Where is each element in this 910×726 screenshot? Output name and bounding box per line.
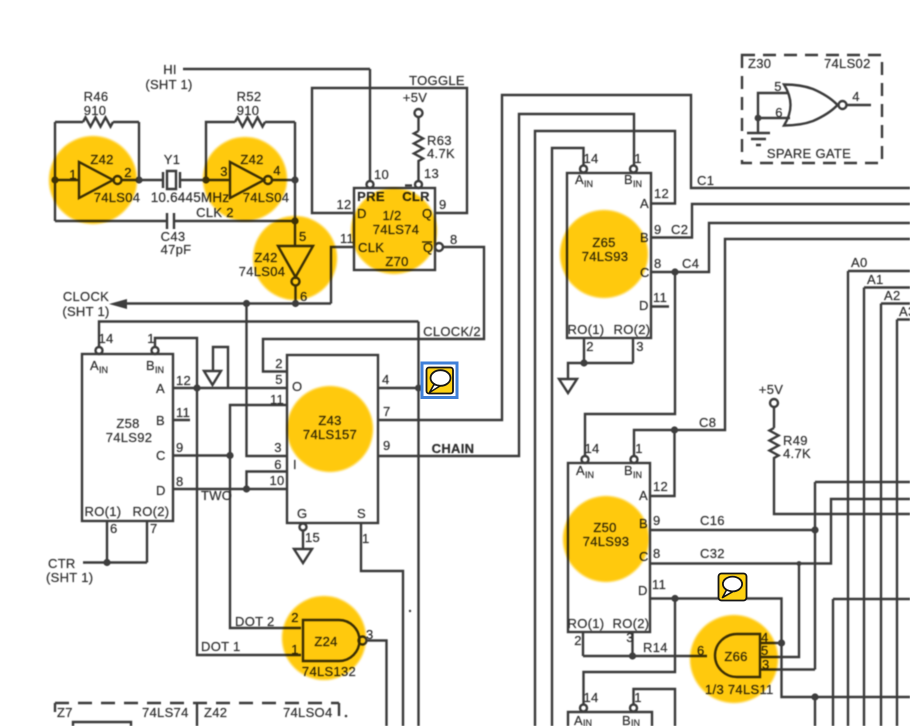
pin 1 circle bottom counter	[630, 705, 637, 712]
junction C8	[671, 426, 678, 433]
svg-text:11: 11	[653, 290, 667, 305]
svg-text:9: 9	[439, 197, 447, 212]
label A_IN Z65	[575, 172, 593, 189]
svg-text:D: D	[639, 298, 649, 313]
svg-text:C16: C16	[700, 513, 725, 528]
svg-text:14: 14	[98, 331, 113, 346]
wire TOGGLE loop Q to D	[312, 88, 467, 213]
label Z42 74LS04 inverter A	[90, 152, 140, 205]
label C43 47pF	[161, 229, 192, 257]
pin labels 2 3 Z50	[574, 630, 634, 648]
svg-text:4.7K: 4.7K	[783, 446, 811, 461]
svg-text:3: 3	[274, 440, 282, 455]
highlight circle over Z42 inverter C	[253, 216, 337, 300]
pin 14 circle Z58	[96, 347, 103, 354]
pin labels inverter B	[220, 163, 281, 179]
svg-text:13: 13	[424, 166, 439, 181]
wire Z43 pin9 CHAIN to Z65 B_IN	[378, 114, 634, 456]
wire Z58 C output	[173, 454, 230, 456]
arrow symbol open triangle	[204, 371, 221, 385]
junction osc A right	[135, 176, 142, 183]
wire staple to arrow symbol	[213, 347, 228, 388]
IC Z50 box	[568, 463, 650, 632]
highlight circle over Z50 counter	[563, 496, 649, 582]
svg-text:47pF: 47pF	[161, 242, 192, 257]
wire G to ground	[302, 531, 304, 550]
wire Z43 pin7 to C1	[378, 95, 910, 420]
IC bottom counter box partial	[568, 712, 652, 726]
label HI (SHT 1)	[145, 62, 192, 92]
label PRE CLR	[357, 189, 430, 204]
ground triangle below Z65	[559, 379, 577, 393]
NOR gate Z30	[784, 85, 838, 126]
resistor R46 with feedback loop	[55, 117, 139, 126]
svg-text:C8: C8	[699, 415, 716, 430]
wire C43 right CLK2	[174, 220, 295, 222]
label CLOCK (SHT 1)	[62, 289, 109, 319]
resistor R63	[414, 117, 423, 181]
pin labels 5 6 4 Z30	[774, 79, 860, 120]
svg-text:910: 910	[237, 103, 260, 118]
Z65 pin numbers 12 9 8 11	[653, 186, 669, 305]
inverter B output bubble	[264, 176, 272, 184]
svg-text:12: 12	[653, 479, 668, 494]
wire Z65 A output nest down	[535, 131, 675, 726]
svg-text:RO(2): RO(2)	[613, 616, 650, 631]
pin 1 circle Z50	[631, 456, 638, 463]
wire CLK pin11 of Z70	[331, 247, 354, 304]
pin 14 circle Z65	[580, 166, 587, 173]
svg-text:74LSO4: 74LSO4	[283, 705, 333, 720]
svg-text:2: 2	[574, 633, 582, 648]
pin labels 14 1 Z50	[584, 441, 642, 456]
svg-text:RO(1): RO(1)	[568, 616, 605, 631]
highlight circle over Z70 flip-flop	[351, 188, 437, 274]
pin 13 CLR circle	[415, 181, 422, 188]
svg-text:74LS02: 74LS02	[824, 56, 871, 71]
pin labels 14 1 Z58	[98, 331, 154, 346]
pin labels 14 1 bottom counter	[583, 690, 641, 705]
svg-text:A: A	[575, 172, 584, 187]
wire Z65 D stub	[651, 305, 669, 307]
label A_IN bottom counter	[574, 713, 592, 726]
IC Z58 box	[82, 354, 173, 521]
junction bottom bus	[811, 693, 818, 700]
Z58 output labels A B C D	[156, 381, 166, 498]
wire Z58 B stub	[173, 419, 190, 421]
pin 14 circle Z50	[582, 456, 589, 463]
wire A0	[848, 271, 910, 726]
labels Z50 74LS93	[583, 520, 630, 549]
wire Z30 inputs tied	[758, 93, 790, 118]
pin labels inverter A	[69, 165, 132, 182]
svg-text:D: D	[156, 483, 166, 498]
crystal Y1	[163, 171, 180, 189]
svg-text:2: 2	[586, 339, 594, 354]
svg-text:3: 3	[636, 339, 644, 354]
labels Z65 74LS93	[582, 235, 629, 264]
svg-text:1: 1	[147, 331, 155, 346]
pin labels inverter C	[299, 229, 308, 304]
junction Z65 RO	[580, 359, 587, 366]
svg-text:5: 5	[774, 79, 782, 94]
svg-text:IN: IN	[155, 365, 164, 375]
highlight circle over Z42 inverter A	[49, 136, 137, 224]
svg-text:5: 5	[275, 372, 283, 387]
Z50 pin numbers 12 9 8 11	[652, 479, 668, 592]
svg-text:6: 6	[274, 457, 282, 472]
wire CLOCK to A_IN Z58	[99, 322, 419, 348]
label Qbar	[422, 240, 433, 255]
svg-text:12: 12	[654, 186, 669, 201]
wire bottom counter B_IN	[634, 689, 676, 726]
svg-text:B: B	[156, 413, 165, 428]
wire R52 loop right + osc down chain	[294, 122, 296, 246]
svg-text:C2: C2	[671, 222, 688, 237]
label Z42 74LS04 inverter B	[240, 152, 289, 205]
CLOCK arrowhead	[109, 299, 127, 309]
labels O I inside Z43	[292, 379, 302, 472]
wire HI net	[183, 68, 370, 70]
svg-text:A: A	[90, 358, 99, 373]
svg-text:IN: IN	[583, 718, 592, 726]
svg-text:RO(2): RO(2)	[614, 322, 651, 337]
wire TWO up to Z43 pin6	[247, 472, 288, 490]
svg-text:RO(1): RO(1)	[568, 322, 605, 337]
svg-text:8: 8	[654, 256, 662, 271]
svg-text:A1: A1	[867, 272, 884, 287]
svg-text:Z42: Z42	[204, 705, 227, 720]
svg-text:C: C	[156, 448, 166, 463]
junction R14	[629, 652, 636, 659]
junction osc A left	[51, 176, 58, 183]
junction CLOCK at pin3 drop	[243, 300, 250, 307]
pin 14 circle bottom counter	[580, 705, 587, 712]
svg-text:9: 9	[653, 513, 661, 528]
wire crystal to inverter B	[180, 179, 230, 181]
wire Z43 pin4 net vertical	[417, 322, 419, 726]
highlight circle over Z42 inverter B	[203, 137, 287, 221]
wire Z50 RO pins to R14	[583, 632, 707, 656]
svg-text:74LS92: 74LS92	[106, 430, 153, 445]
label Z42 74LS04 inverter C	[239, 250, 286, 279]
svg-text:IN: IN	[631, 718, 640, 726]
highlight circle over Z24 gate	[282, 596, 366, 680]
spare flip-flop box partial	[73, 722, 131, 726]
junction TWO	[243, 485, 250, 492]
junction Z58 A output	[193, 384, 200, 391]
comment icon selected near Z43 pin4	[422, 363, 457, 398]
wire Z50 C output C32	[650, 499, 910, 564]
junction C32 tap	[797, 561, 802, 566]
resistor R52 with feedback loop	[206, 117, 295, 180]
wire CLOCK/2 Qbar to Z43 pin2	[263, 247, 484, 372]
wire C8 net to Z50 B_IN	[634, 239, 910, 456]
IC Z43 box	[287, 355, 378, 523]
svg-text:10: 10	[269, 473, 284, 488]
svg-text:IN: IN	[633, 179, 642, 189]
svg-text:CHAIN: CHAIN	[432, 441, 475, 456]
junction CTR	[103, 559, 110, 566]
wire Z66 pin4 down to bottom bus	[782, 643, 910, 697]
pin labels 12 11 9 8 Z70	[336, 197, 457, 247]
label B_IN Z58	[146, 358, 164, 375]
svg-text:(SHT 1): (SHT 1)	[145, 77, 192, 92]
svg-text:B: B	[624, 172, 633, 187]
junction osc B left	[202, 176, 209, 183]
svg-text:HI: HI	[163, 62, 177, 77]
pin 10 PRE circle	[367, 181, 374, 188]
Z30 output bubble	[839, 101, 847, 109]
wire Z66 pin3 to right net	[760, 482, 910, 670]
svg-text:RO(2): RO(2)	[133, 504, 170, 519]
label R52 910	[237, 89, 262, 118]
svg-text:14: 14	[583, 151, 598, 166]
svg-text:CLOCK: CLOCK	[63, 289, 109, 304]
junction C43	[291, 217, 298, 224]
svg-text:C4: C4	[682, 256, 699, 271]
svg-text:IN: IN	[633, 470, 642, 480]
svg-text:D: D	[638, 583, 648, 598]
wire inverter B output	[272, 179, 295, 181]
svg-text:7: 7	[383, 404, 391, 419]
label R49 4.7K	[783, 433, 811, 461]
svg-text:10: 10	[374, 167, 389, 182]
Z43 right pin numbers 4 7 9	[382, 372, 391, 453]
+5V terminal R63	[415, 109, 423, 117]
svg-text:2: 2	[275, 356, 283, 371]
labels Z58 74LS92	[106, 416, 153, 445]
pin labels 10 13	[374, 166, 439, 182]
wire Z30 ground stem	[757, 118, 759, 133]
svg-text:G: G	[297, 506, 307, 521]
wire A1	[864, 288, 910, 726]
svg-text:8: 8	[653, 546, 661, 561]
IC Z65 box	[567, 173, 651, 338]
svg-text:DOT 1: DOT 1	[201, 639, 241, 654]
+5V terminal R49	[770, 399, 778, 407]
junction CLOCK at inv C	[292, 300, 299, 307]
comment icon near Z50 D	[719, 574, 747, 601]
wire Z65 B output C2	[651, 204, 910, 238]
labels Z43 74LS157	[303, 413, 357, 442]
svg-text:8: 8	[176, 474, 184, 489]
wire Z66 pin4	[760, 642, 782, 644]
inverter A output bubble	[114, 176, 122, 184]
speck dot2	[345, 715, 348, 718]
capacitor C43	[167, 213, 174, 229]
wire Z58 D TWO to pin10	[173, 488, 287, 490]
svg-text:(SHT 1): (SHT 1)	[62, 304, 109, 319]
wire Z43 pin4 output	[378, 387, 419, 389]
svg-text:B: B	[624, 463, 633, 478]
svg-text:15: 15	[305, 530, 320, 545]
svg-text:A: A	[639, 488, 648, 503]
pin 1 circle Z58	[152, 347, 159, 354]
svg-text:A: A	[574, 713, 583, 726]
svg-text:IN: IN	[585, 470, 594, 480]
svg-text:C1: C1	[697, 173, 714, 188]
svg-text:A: A	[156, 381, 165, 396]
svg-text:TWO: TWO	[201, 488, 232, 503]
svg-text:4: 4	[852, 89, 860, 104]
label A_IN Z50	[576, 463, 594, 480]
wire A2	[881, 304, 910, 726]
svg-text:12: 12	[336, 197, 351, 212]
svg-text:8: 8	[450, 232, 458, 247]
pin 1 circle Z65	[630, 166, 637, 173]
svg-text:Y1: Y1	[164, 152, 181, 167]
AND gate Z66 mirrored	[715, 634, 760, 677]
svg-text:14: 14	[584, 441, 599, 456]
pin labels 4 5 3 Z66	[761, 630, 770, 672]
svg-text:A: A	[640, 196, 649, 211]
label RO(1) RO(2) Z65	[568, 322, 651, 337]
svg-text:9: 9	[654, 222, 662, 237]
svg-text:11: 11	[270, 392, 284, 407]
svg-text:74LS74: 74LS74	[142, 705, 189, 720]
svg-text:11: 11	[176, 405, 190, 420]
wire inverter A input	[55, 179, 79, 181]
svg-text:R46: R46	[84, 89, 109, 104]
svg-text:1: 1	[362, 531, 370, 546]
pin G bubble Z43	[300, 524, 307, 531]
resistor R49	[769, 407, 910, 514]
svg-text:(SHT 1): (SHT 1)	[46, 570, 93, 585]
wire bottom bus drop	[814, 697, 816, 726]
junction Z50 D	[671, 595, 678, 602]
svg-text:+5V: +5V	[759, 382, 783, 397]
pin labels 15 1 Z43	[305, 530, 370, 546]
svg-text:DOT 2: DOT 2	[235, 614, 275, 629]
label R46 910	[84, 89, 109, 118]
svg-text:IN: IN	[584, 179, 593, 189]
wire Z50 B output C16	[650, 529, 815, 531]
inverter Z42 B	[230, 162, 264, 198]
spare box left tick	[54, 703, 56, 712]
inverter C output bubble	[292, 278, 300, 286]
svg-text:B: B	[622, 713, 631, 726]
junction C4	[671, 268, 678, 275]
Z58 pin numbers 12 11 9 8	[176, 373, 191, 489]
svg-text:CTR: CTR	[48, 556, 76, 571]
label A_IN Z58	[90, 358, 108, 375]
label Y1 crystal	[151, 152, 230, 205]
wire A3	[897, 320, 910, 726]
spare box divider	[196, 703, 198, 726]
svg-text:R52: R52	[237, 89, 262, 104]
wire right bus y599	[833, 599, 910, 726]
wire Z65 C output C4	[651, 223, 910, 272]
svg-text:9: 9	[383, 438, 391, 453]
svg-text:1: 1	[635, 441, 643, 456]
pin labels 6 7 Z58	[110, 521, 158, 536]
junction osc B right	[291, 176, 298, 183]
spare gates dashed box bottom	[55, 702, 339, 704]
wire R46 loop left vertical	[54, 122, 56, 221]
svg-text:1: 1	[634, 690, 642, 705]
svg-text:S: S	[357, 506, 366, 521]
wire C32 down to Z66 pin5	[760, 564, 799, 658]
label B_IN bottom counter	[622, 713, 640, 726]
svg-text:6: 6	[110, 521, 118, 536]
label B_IN Z65	[624, 172, 642, 189]
wire Z58 RO pins to CTR	[83, 521, 147, 563]
svg-text:910: 910	[84, 103, 107, 118]
inverter Z42 C pointing down	[278, 246, 313, 277]
svg-text:TOGGLE: TOGGLE	[409, 73, 465, 88]
label CTR (SHT 1)	[46, 556, 93, 585]
svg-text:1: 1	[634, 151, 642, 166]
svg-text:9: 9	[176, 440, 184, 455]
IC Z70 box	[354, 188, 435, 270]
svg-text:CLOCK/2: CLOCK/2	[423, 324, 481, 339]
wire R46 loop right vertical	[138, 122, 140, 180]
Z65 output labels A B C D	[639, 196, 650, 313]
labels inside Z70	[357, 206, 419, 269]
svg-text:A: A	[576, 463, 585, 478]
svg-text:SPARE GATE: SPARE GATE	[767, 146, 851, 161]
junction Z30 inputs	[755, 115, 762, 122]
label RO(1) RO(2) Z50	[568, 616, 650, 631]
svg-text:Z30: Z30	[748, 56, 771, 71]
wire Z58 A output to Z43 pin5	[173, 387, 287, 389]
svg-text:A0: A0	[851, 255, 868, 270]
inverter Z42 A	[79, 162, 113, 198]
wire CLOCK down to Z43 pin3	[247, 304, 288, 457]
pin labels 14 1 Z65	[583, 151, 641, 166]
wire CLOCK line	[124, 302, 331, 304]
ground earth bars Z30	[747, 133, 770, 145]
svg-text:C32: C32	[700, 546, 725, 561]
pin labels 2 1 3 Z24	[291, 610, 373, 657]
Qbar output bubble Z70	[435, 243, 443, 251]
junction Z43 pin4	[415, 385, 422, 392]
wire PRE pin10 vertical	[369, 69, 371, 180]
svg-text:14: 14	[583, 690, 598, 705]
wire C4 down to Z50 A_IN	[585, 272, 675, 456]
wire Z24 output down	[367, 641, 387, 726]
highlight circle over Z43 mux	[287, 386, 373, 472]
Z43 left pin numbers	[269, 356, 284, 488]
svg-text:3: 3	[366, 627, 374, 642]
speck dot	[409, 610, 411, 612]
highlight circle over Z66 gate	[690, 615, 778, 703]
spare box right tick	[338, 703, 340, 716]
wire B_IN from A + DOT1 run	[155, 338, 301, 655]
Z50 output labels A B C D	[638, 488, 649, 598]
svg-text:B: B	[146, 358, 155, 373]
svg-text:7: 7	[150, 521, 158, 536]
spare gate Z30 dashed box	[742, 55, 882, 163]
svg-text:6: 6	[775, 105, 783, 120]
wire Z50 D output	[650, 599, 782, 644]
wire Z65 RO pins	[568, 338, 633, 379]
svg-text:Z7: Z7	[57, 705, 73, 720]
NAND gate Z24	[303, 620, 359, 661]
label R63 4.7K	[427, 133, 455, 161]
svg-text:11: 11	[652, 577, 666, 592]
svg-text:A3: A3	[899, 304, 910, 319]
svg-text:RO(1): RO(1)	[85, 504, 122, 519]
svg-text:+5V: +5V	[403, 90, 427, 105]
wire C43 left	[55, 220, 167, 222]
svg-text:4.7K: 4.7K	[427, 146, 455, 161]
junction Z66 pin4	[778, 639, 785, 646]
svg-text:4: 4	[382, 372, 390, 387]
wire Z50 A output up to C8	[650, 430, 675, 496]
svg-text:Z58: Z58	[116, 416, 139, 431]
